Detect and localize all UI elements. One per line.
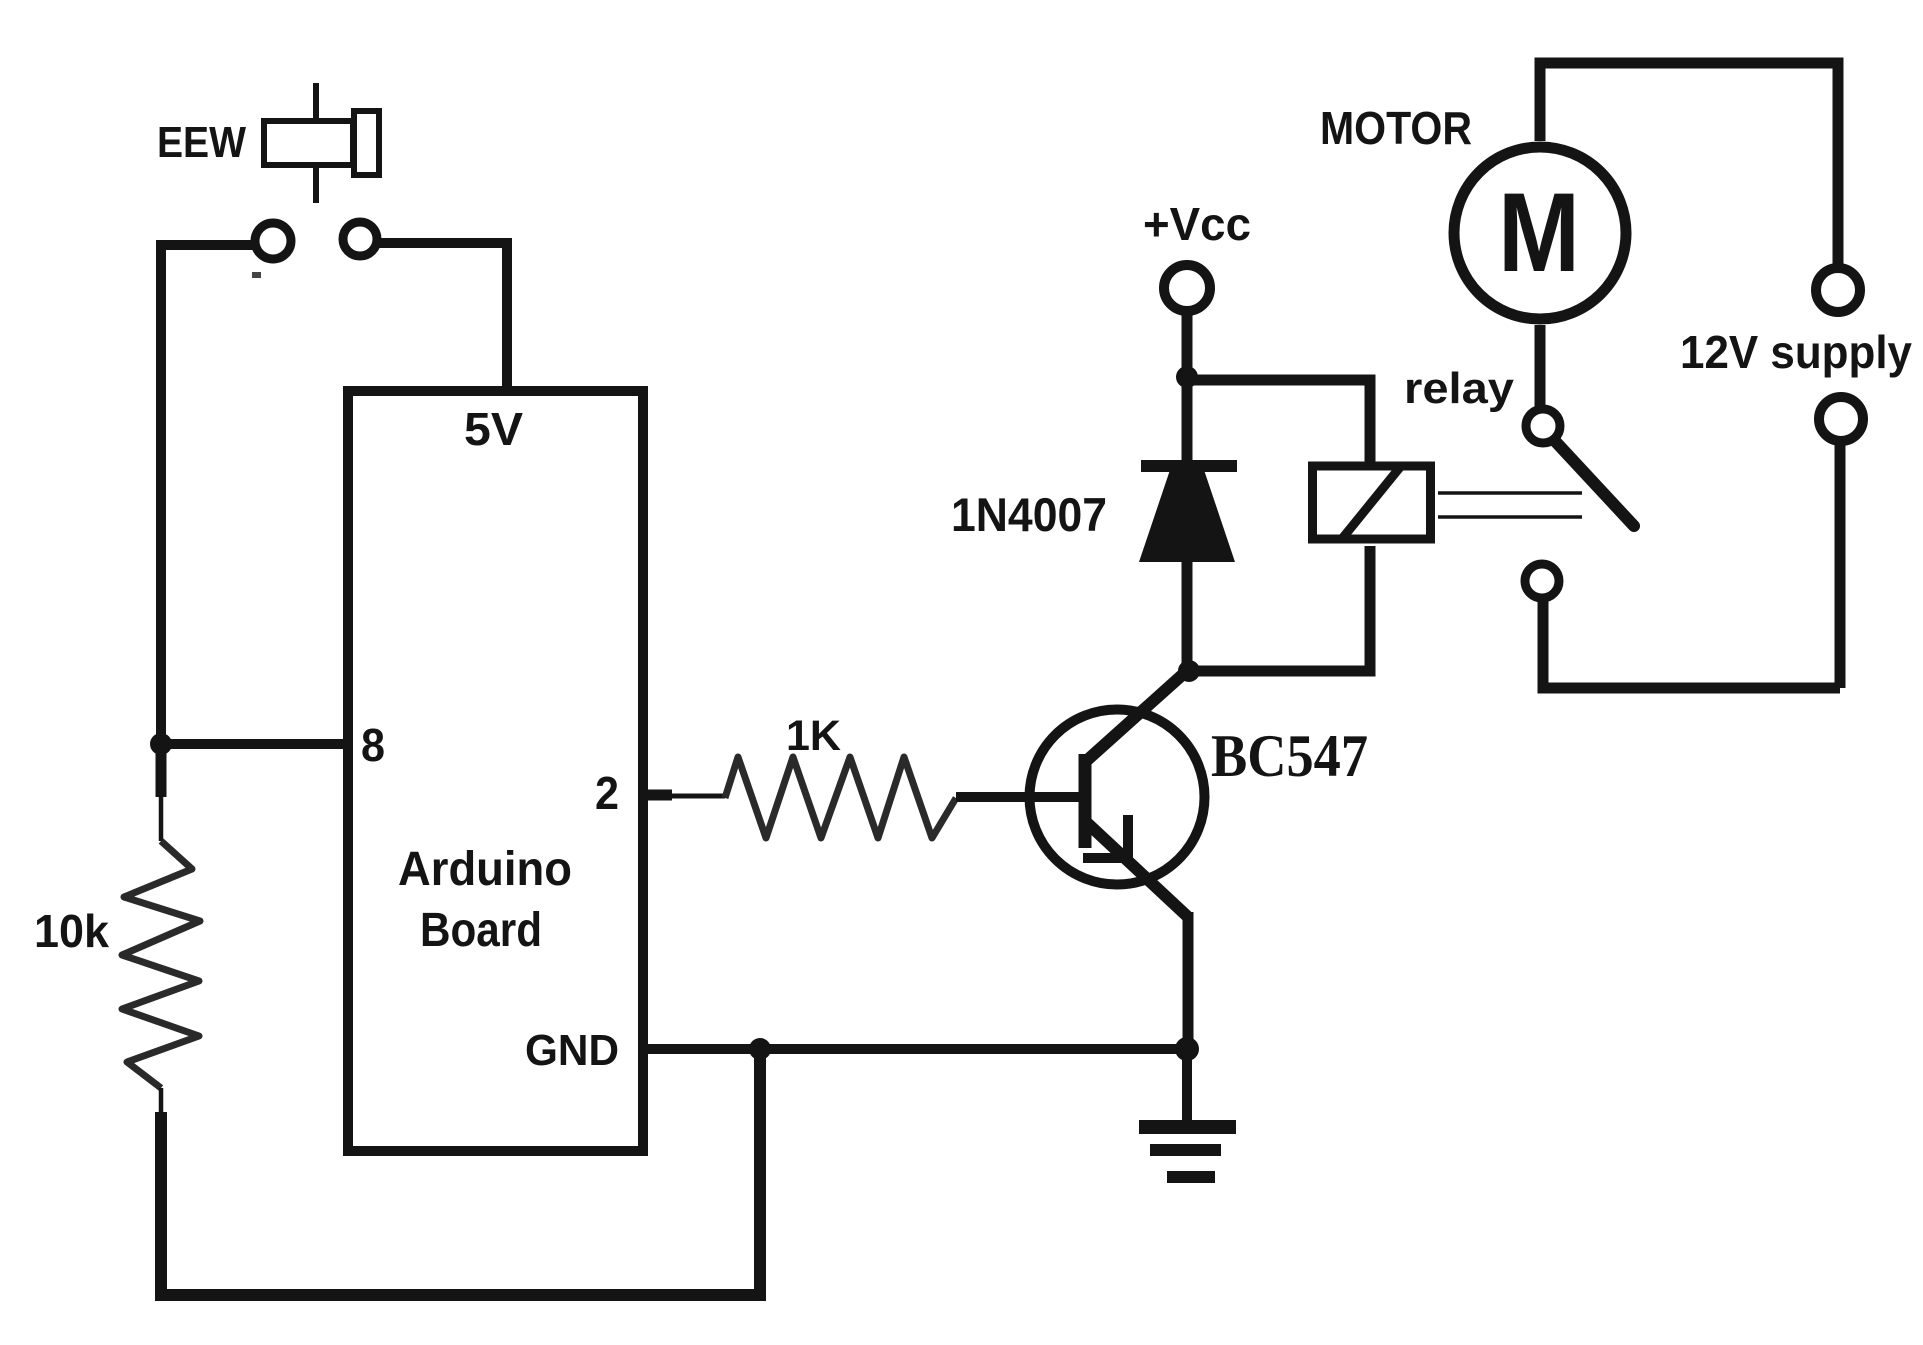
relay switch lever xyxy=(1555,441,1634,526)
junction dot GND rail right xyxy=(1175,1037,1199,1061)
node A junction dot xyxy=(150,733,172,755)
svg-text:relay: relay xyxy=(1404,364,1515,413)
pushbutton right terminal xyxy=(343,222,377,256)
junction dot GND rail left xyxy=(749,1038,771,1060)
bottom rail wire xyxy=(155,1049,760,1295)
resistor 10k xyxy=(122,841,200,1088)
wire node B to relay coil top xyxy=(1192,380,1370,464)
wire resistor 1K to base xyxy=(956,792,1085,802)
transistor Q1 BC547 xyxy=(1030,668,1205,917)
svg-text:1N4007: 1N4007 xyxy=(951,488,1107,541)
sensor EEW piezo element xyxy=(264,83,379,203)
speck artifact xyxy=(252,272,261,278)
svg-text:5V: 5V xyxy=(464,403,523,455)
node C junction dot xyxy=(1178,660,1200,682)
svg-text:8: 8 xyxy=(361,719,385,771)
relay coil slash xyxy=(1341,466,1401,540)
pushbutton left terminal xyxy=(255,223,291,259)
wire motor to relay contact top xyxy=(1535,325,1546,410)
svg-text:BC547: BC547 xyxy=(1211,723,1368,789)
wire pin 8 to node A xyxy=(161,739,346,749)
wire supply lower to bottom loop xyxy=(1835,441,1846,688)
relay contact top xyxy=(1526,409,1560,443)
svg-text:+Vcc: +Vcc xyxy=(1143,198,1251,250)
wire relay contact bottom to supply xyxy=(1543,598,1840,688)
svg-text:GND: GND xyxy=(525,1026,619,1075)
12V supply terminal upper xyxy=(1816,268,1860,312)
svg-text:Arduino: Arduino xyxy=(398,843,572,896)
svg-text:Board: Board xyxy=(420,904,542,957)
svg-text:2: 2 xyxy=(595,767,619,819)
svg-text:M: M xyxy=(1498,170,1580,295)
12V supply terminal lower xyxy=(1819,397,1863,441)
diode D1 1N4007 xyxy=(1139,460,1237,562)
wire node A to resistor 10k xyxy=(156,744,167,797)
node B junction dot xyxy=(1176,366,1198,388)
+Vcc terminal xyxy=(1164,265,1210,311)
svg-text:MOTOR: MOTOR xyxy=(1320,102,1472,154)
svg-text:EEW: EEW xyxy=(157,118,246,167)
wire Arduino GND to transistor emitter xyxy=(643,1044,1187,1054)
resistor 1K xyxy=(725,757,956,838)
wire switch-left to left rail xyxy=(161,245,254,749)
wire relay coil bottom to node C xyxy=(1192,546,1370,671)
wire motor top loop to supply xyxy=(1540,63,1838,264)
wire diode anode to node C xyxy=(1182,561,1193,671)
wire resistor 10k to bottom rail xyxy=(159,1088,164,1112)
wire pin 2 to resistor 1K xyxy=(643,790,672,801)
ground xyxy=(1139,1120,1236,1183)
wire node B to diode cathode xyxy=(1182,377,1193,462)
wire GND rail to ground symbol xyxy=(1182,1049,1192,1122)
relay coil K1 xyxy=(1313,466,1431,539)
svg-text:1K: 1K xyxy=(786,712,841,760)
motor M1 xyxy=(1454,147,1626,319)
Arduino board U1 xyxy=(348,391,643,1151)
wire emitter to GND rail xyxy=(1183,912,1194,1049)
wire Vcc to node B xyxy=(1182,311,1193,377)
svg-text:12V supply: 12V supply xyxy=(1680,326,1912,378)
svg-text:10k: 10k xyxy=(34,905,109,957)
wire switch-right to Arduino 5V xyxy=(378,243,507,391)
relay contact bottom xyxy=(1525,564,1559,598)
relay linkage lines xyxy=(1438,491,1582,495)
